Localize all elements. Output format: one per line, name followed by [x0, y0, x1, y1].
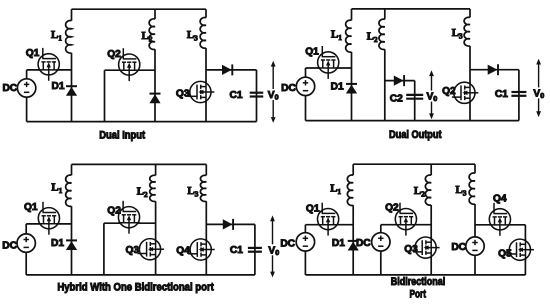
svg-text:Q1: Q1 — [26, 48, 40, 59]
svg-text:DC: DC — [451, 242, 466, 253]
svg-text:Q4: Q4 — [493, 194, 507, 205]
svg-text:Q1: Q1 — [305, 46, 319, 57]
svg-text:Q3: Q3 — [176, 89, 190, 100]
svg-text:V0: V0 — [268, 90, 279, 102]
svg-text:C2: C2 — [390, 94, 403, 105]
svg-text:DC: DC — [281, 83, 296, 94]
svg-text:Q2: Q2 — [107, 205, 121, 216]
svg-text:Dual Output: Dual Output — [389, 129, 442, 141]
svg-text:Q2: Q2 — [107, 49, 121, 60]
svg-text:D1: D1 — [51, 238, 64, 249]
svg-text:Q3: Q3 — [404, 244, 418, 255]
svg-text:Q5: Q5 — [498, 249, 512, 260]
svg-text:DC: DC — [356, 238, 371, 249]
svg-text:Port: Port — [409, 289, 426, 301]
svg-text:V0: V0 — [533, 89, 544, 101]
svg-text:D1: D1 — [51, 81, 64, 92]
svg-text:Bidirectional: Bidirectional — [391, 276, 446, 288]
svg-text:V0: V0 — [268, 245, 279, 257]
svg-text:C1: C1 — [230, 245, 243, 256]
svg-text:DC: DC — [2, 241, 17, 252]
svg-text:Q3: Q3 — [126, 245, 140, 256]
svg-text:Q2: Q2 — [442, 86, 456, 97]
svg-text:Q4: Q4 — [176, 246, 190, 257]
svg-text:DC: DC — [2, 83, 17, 94]
svg-text:V0: V0 — [427, 92, 438, 104]
svg-text:Hybrid With One Bidirectional: Hybrid With One Bidirectional port — [57, 281, 214, 293]
svg-text:C1: C1 — [495, 89, 508, 100]
svg-text:Q2: Q2 — [385, 202, 399, 213]
svg-text:Q1: Q1 — [24, 202, 38, 213]
svg-text:Dual Input: Dual Input — [99, 129, 145, 141]
svg-text:D1: D1 — [331, 82, 344, 93]
svg-text:Q1: Q1 — [306, 204, 320, 215]
svg-text:C1: C1 — [229, 90, 242, 101]
svg-text:DC: DC — [280, 239, 295, 250]
svg-text:D1: D1 — [332, 238, 345, 249]
